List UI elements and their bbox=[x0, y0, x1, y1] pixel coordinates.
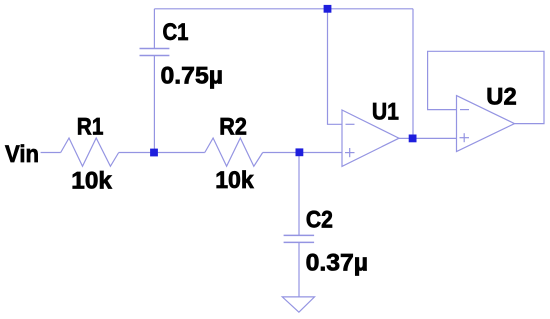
wire R2 to U1 non-inverting input through node D bbox=[263, 152, 342, 154]
junction node D bbox=[296, 148, 304, 156]
wire C1 up to top rail bbox=[153, 9, 155, 49]
svg-text:Vin: Vin bbox=[5, 141, 39, 168]
op-amp U2 bbox=[457, 96, 515, 152]
op-amp U1 bbox=[342, 110, 399, 166]
svg-text:0.75µ: 0.75µ bbox=[161, 63, 224, 90]
wire top rail down to U1 output node bbox=[412, 9, 414, 139]
svg-text:0.37µ: 0.37µ bbox=[306, 250, 369, 277]
wire node D down to C2 bbox=[298, 153, 300, 236]
svg-text:R2: R2 bbox=[219, 114, 247, 141]
wire node A up to C1 bbox=[153, 56, 155, 153]
svg-text:10k: 10k bbox=[71, 167, 112, 194]
capacitor C1 bbox=[140, 49, 170, 56]
svg-text:C2: C2 bbox=[306, 207, 333, 234]
capacitor C2 bbox=[284, 235, 315, 242]
wire U1 output to U2 non-inverting input bbox=[399, 137, 457, 139]
wire node B down to U1 inverting input bbox=[328, 9, 343, 125]
svg-text:U1: U1 bbox=[372, 98, 399, 125]
ground bbox=[282, 297, 314, 312]
svg-text:U2: U2 bbox=[486, 84, 516, 111]
wire U2 feedback loop (output to inverting input) bbox=[428, 51, 544, 123]
junction node B (top rail) bbox=[324, 5, 332, 13]
svg-text:10k: 10k bbox=[215, 167, 254, 194]
svg-text:R1: R1 bbox=[77, 114, 104, 141]
wire C2 down to ground bbox=[298, 242, 300, 297]
wire Vin to R1 bbox=[41, 152, 61, 154]
junction node C (U1 output) bbox=[409, 135, 417, 143]
wire R1 to R2 through node A bbox=[119, 152, 205, 154]
resistor R1 bbox=[61, 138, 119, 166]
junction node A bbox=[150, 149, 158, 157]
svg-text:C1: C1 bbox=[163, 19, 189, 46]
resistor R2 bbox=[205, 138, 263, 166]
wire top rail bbox=[154, 8, 413, 10]
